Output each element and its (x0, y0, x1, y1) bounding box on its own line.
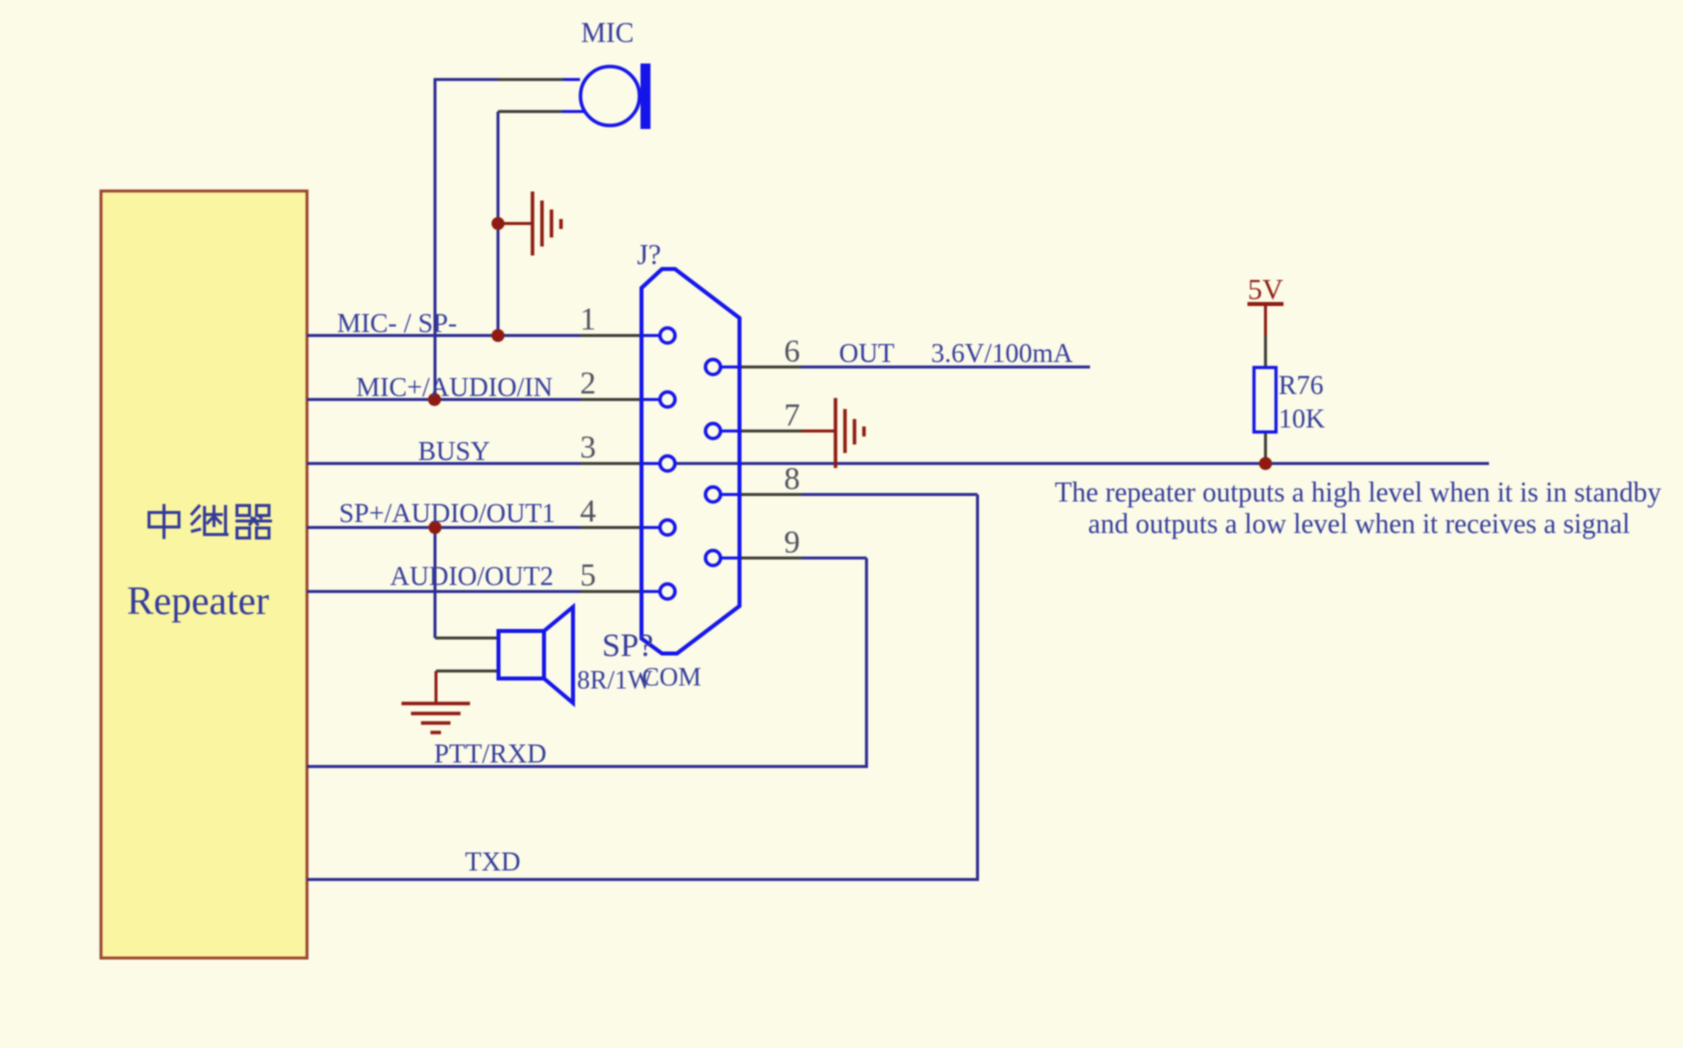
svg-text:5V: 5V (1248, 274, 1284, 306)
svg-text:MIC+/AUDIO/IN: MIC+/AUDIO/IN (356, 372, 553, 402)
svg-text:R76: R76 (1279, 370, 1324, 400)
svg-text:MIC- / SP-: MIC- / SP- (337, 308, 457, 338)
svg-text:5: 5 (580, 557, 596, 593)
svg-text:AUDIO/OUT2: AUDIO/OUT2 (390, 561, 553, 591)
svg-text:COM: COM (642, 663, 701, 692)
svg-text:1: 1 (580, 301, 596, 337)
svg-text:OUT: OUT (839, 338, 895, 368)
svg-text:TXD: TXD (465, 847, 521, 877)
svg-text:SP+/AUDIO/OUT1: SP+/AUDIO/OUT1 (339, 498, 555, 528)
svg-text:6: 6 (784, 333, 800, 369)
svg-text:PTT/RXD: PTT/RXD (434, 739, 547, 769)
svg-text:3: 3 (580, 429, 596, 465)
svg-text:J?: J? (637, 239, 661, 271)
svg-text:BUSY: BUSY (418, 436, 490, 466)
svg-text:2: 2 (580, 365, 596, 401)
svg-text:and outputs a low level when i: and outputs a low level when it receives… (1088, 509, 1630, 540)
svg-text:8: 8 (784, 460, 800, 496)
svg-text:3.6V/100mA: 3.6V/100mA (931, 338, 1073, 368)
svg-text:SP?: SP? (602, 628, 653, 664)
svg-text:The repeater outputs a high le: The repeater outputs a high level when i… (1055, 478, 1662, 509)
svg-text:10K: 10K (1279, 404, 1326, 434)
svg-text:7: 7 (784, 397, 800, 433)
svg-text:9: 9 (784, 524, 800, 560)
svg-text:Repeater: Repeater (127, 578, 269, 623)
svg-text:4: 4 (580, 493, 596, 529)
svg-text:MIC: MIC (581, 18, 634, 49)
